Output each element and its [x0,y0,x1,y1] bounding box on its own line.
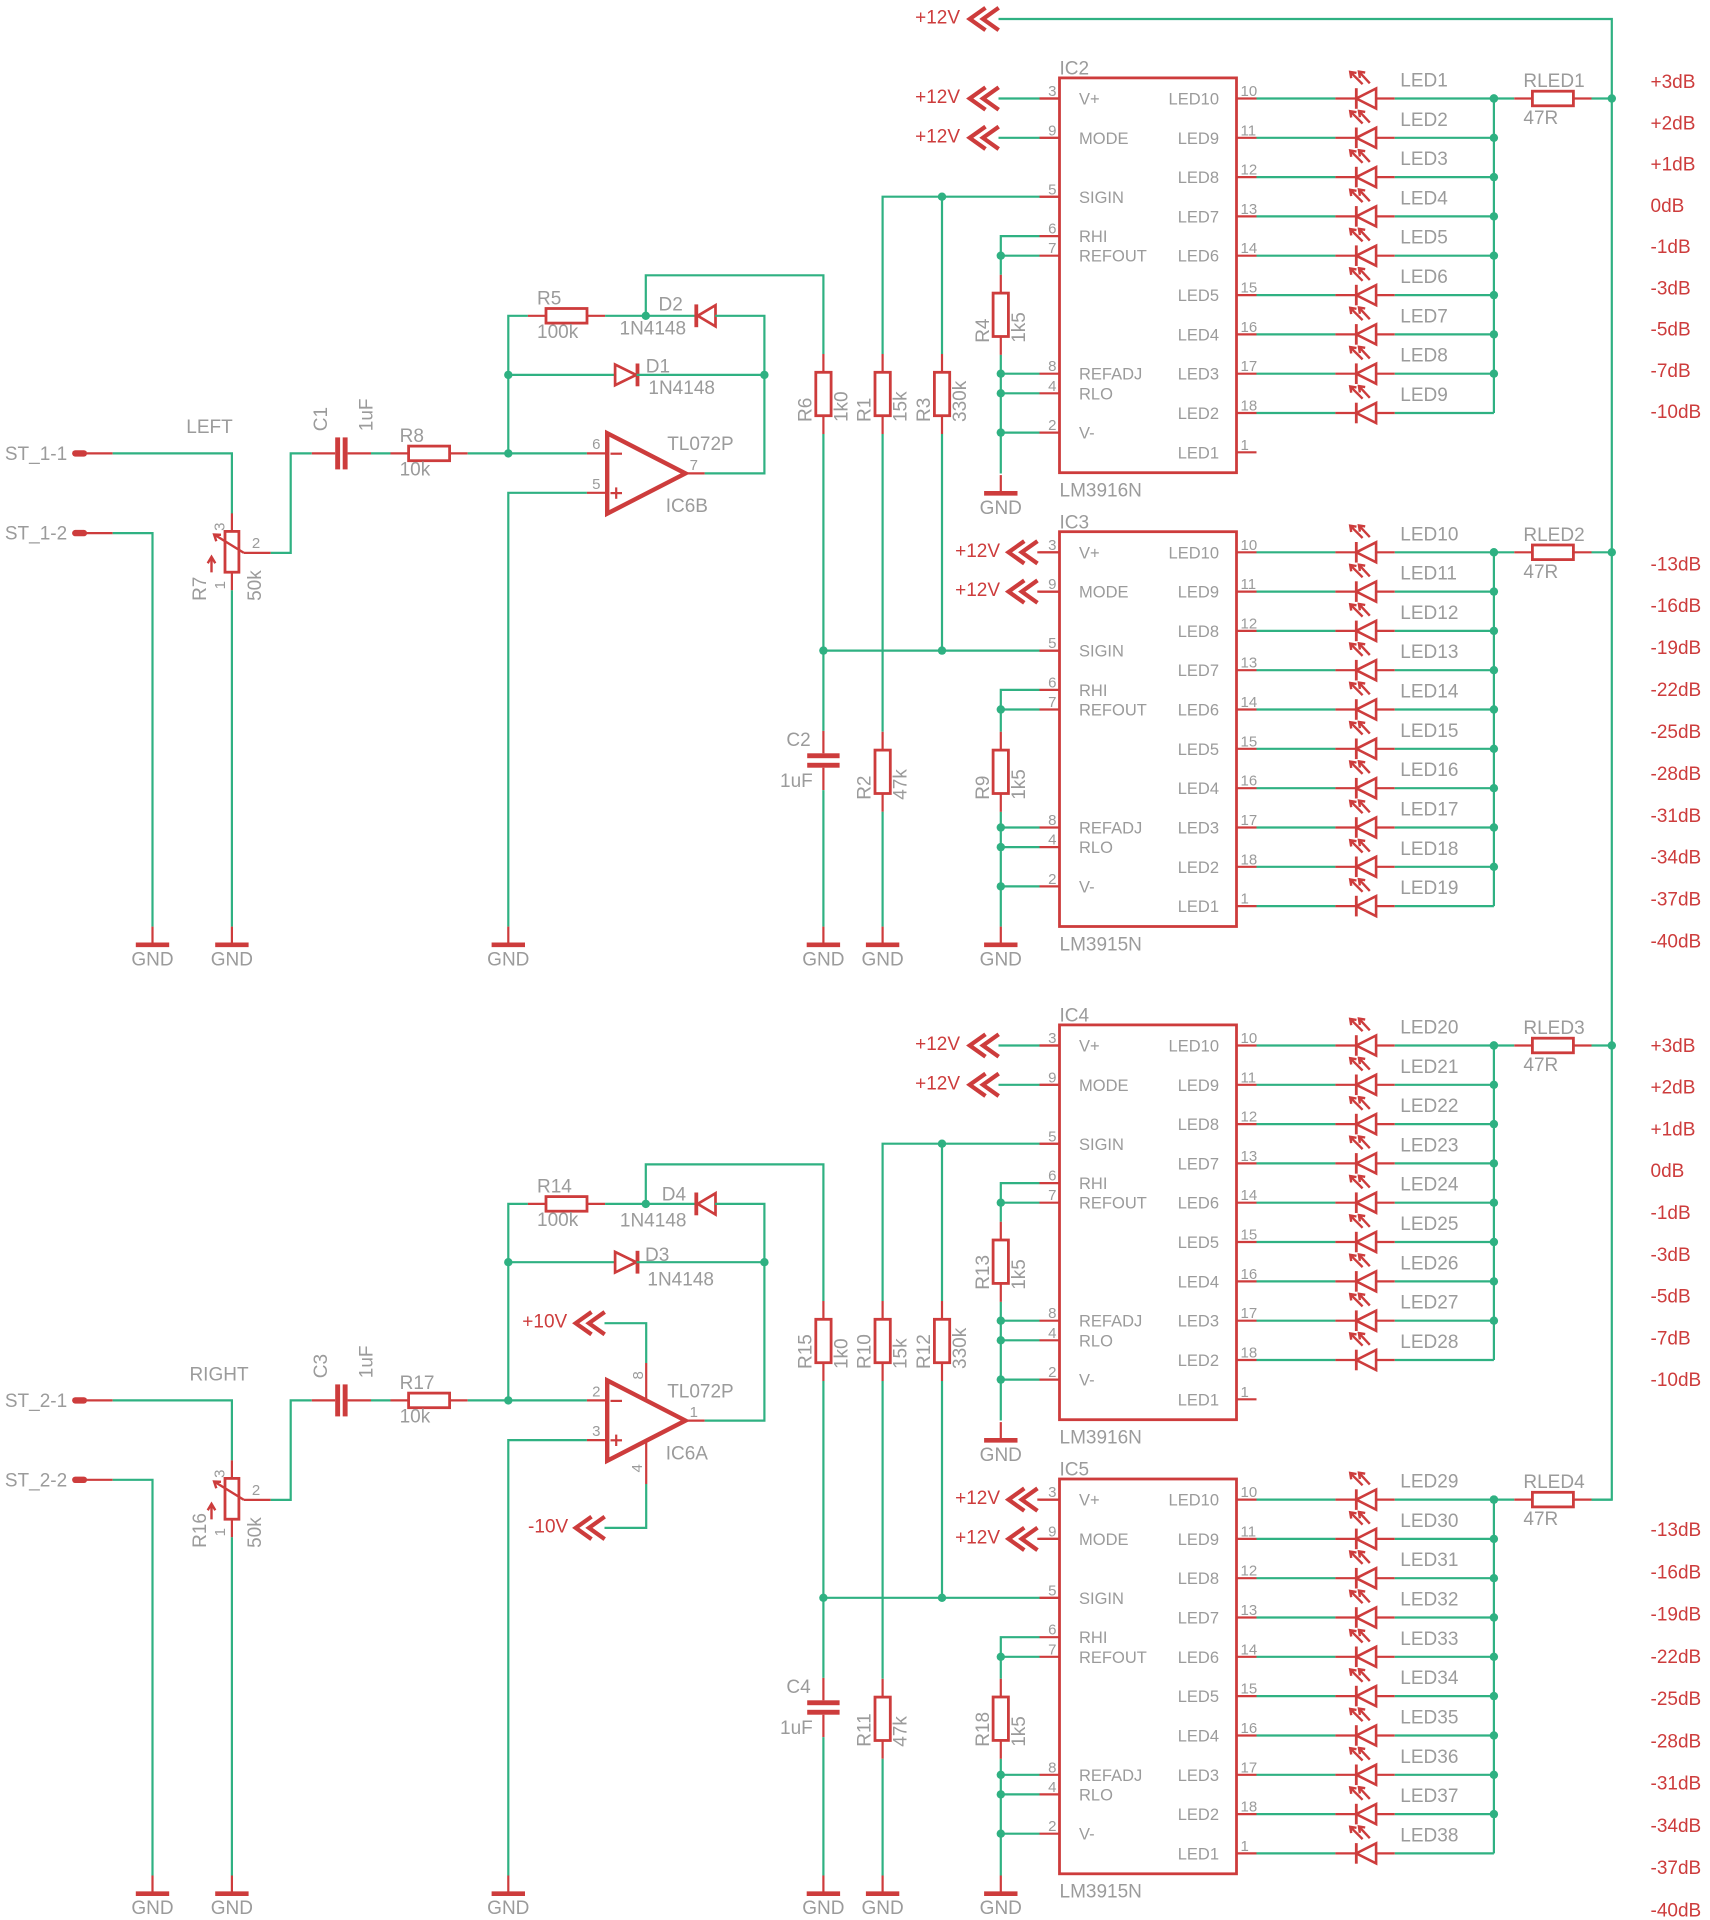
svg-text:R8: R8 [400,426,424,447]
wire +12V to IC4 pin3 [999,1044,1040,1046]
LED LED38 [1335,1825,1458,1863]
svg-text:LED10: LED10 [1169,91,1219,109]
wire LED30 cathode [1257,1538,1336,1540]
wire LED5 cathode [1257,255,1336,257]
junction V- [997,1830,1005,1838]
svg-text:LED1: LED1 [1178,1845,1219,1863]
svg-text:REFADJ: REFADJ [1079,820,1142,838]
svg-text:1uF: 1uF [780,771,813,792]
LED LED30 [1335,1511,1458,1549]
svg-text:6: 6 [1048,1168,1056,1185]
connector pad ST_2-2 [5,1470,87,1491]
capacitor C2 1uF [780,730,840,792]
wire LED2 anode [1395,137,1494,139]
wire R2 to GND [881,812,883,927]
svg-text:17: 17 [1241,1305,1258,1322]
junction RLED1 left [1490,94,1498,102]
wire LED14 cathode [1257,708,1336,710]
svg-text:R13: R13 [973,1255,994,1290]
svg-text:LED12: LED12 [1400,603,1458,624]
wire SIGIN4 [823,1597,1039,1599]
wire LED14 anode [1395,708,1494,710]
svg-text:-1dB: -1dB [1651,1203,1691,1224]
svg-text:0dB: 0dB [1651,1161,1685,1182]
svg-text:R16: R16 [190,1513,211,1548]
svg-text:-19dB: -19dB [1651,638,1702,659]
LED LED23 [1335,1135,1458,1173]
junction anode bus [1490,370,1498,378]
svg-text:LED6: LED6 [1178,1195,1219,1213]
wire pot R7 wiper to C1 [271,453,312,553]
svg-text:IC4: IC4 [1060,1006,1090,1027]
svg-text:8: 8 [1048,358,1056,375]
wire LED21 anode [1395,1084,1494,1086]
LED LED13 [1335,642,1458,680]
svg-text:LED35: LED35 [1400,1708,1458,1729]
wire LED7 cathode [1257,333,1336,335]
svg-text:LEFT: LEFT [186,417,233,438]
wire RLO [1001,1339,1040,1341]
svg-text:12: 12 [1241,162,1258,179]
wire LED26 cathode [1257,1280,1336,1282]
wire LED29 cathode [1257,1498,1336,1500]
svg-text:SIGIN: SIGIN [1079,1590,1124,1608]
svg-text:LED1: LED1 [1400,71,1448,92]
svg-text:IC2: IC2 [1060,59,1090,80]
wire LED20 cathode [1257,1044,1336,1046]
svg-text:R10: R10 [855,1334,876,1369]
wire LED19 cathode [1257,905,1336,907]
svg-text:-1dB: -1dB [1651,237,1691,258]
wire R5 to D2 node [605,315,646,317]
svg-text:LED8: LED8 [1178,623,1219,641]
wire op-amp pin5 to GND [508,493,587,927]
LED LED16 [1335,760,1458,798]
wire +12V to IC4 pin9 [999,1084,1040,1086]
wire C4 to GND [822,1737,824,1875]
svg-text:V-: V- [1079,1372,1095,1390]
wire op-amp pin3 to GND [508,1440,587,1875]
IC2 pin3 stub [1040,97,1060,99]
svg-text:LED33: LED33 [1400,1629,1458,1650]
junction REFADJ [997,370,1005,378]
wire R bottom to REFADJ/RLO/V- [1000,355,1002,433]
svg-text:GND: GND [861,1898,903,1919]
svg-text:RIGHT: RIGHT [189,1364,249,1385]
svg-text:10: 10 [1241,1484,1258,1501]
svg-text:330k: 330k [950,1327,971,1369]
wire REFOUT [1001,255,1040,257]
wire to R top [1000,1203,1002,1222]
junction D3 right [760,1258,768,1266]
svg-text:11: 11 [1241,576,1257,593]
wire LED37 cathode [1257,1813,1336,1815]
svg-text:LED3: LED3 [1178,1767,1219,1785]
wire LED3 cathode [1257,176,1336,178]
wire IC4 V- to GND [1000,1380,1002,1421]
wire LED30 anode [1395,1538,1494,1540]
wire LED36 anode [1395,1774,1494,1776]
ground [802,927,844,971]
svg-text:RLO: RLO [1079,385,1113,403]
svg-text:LED5: LED5 [1178,1234,1219,1252]
svg-text:7: 7 [1048,240,1056,257]
svg-text:GND: GND [211,1898,253,1919]
svg-text:2: 2 [592,1383,600,1400]
svg-text:10k: 10k [400,1406,431,1427]
junction anode bus [1490,1238,1498,1246]
svg-text:V+: V+ [1079,1492,1100,1510]
junction REFADJ [997,1317,1005,1325]
svg-text:100k: 100k [537,322,579,343]
svg-text:R1: R1 [855,398,876,422]
junction R5/D2 [642,312,650,320]
svg-text:LED34: LED34 [1400,1668,1459,1689]
svg-text:LED23: LED23 [1400,1135,1458,1156]
junction anode bus [1490,134,1498,142]
junction anode bus [1490,548,1498,556]
LED LED27 [1335,1293,1458,1331]
wire LED9 cathode [1257,412,1336,414]
svg-text:LED4: LED4 [1178,780,1219,798]
svg-text:LED10: LED10 [1169,1038,1219,1056]
svg-text:-31dB: -31dB [1651,806,1702,827]
svg-text:LED7: LED7 [1178,1155,1219,1173]
LED LED10 [1335,524,1458,562]
ground [980,927,1022,971]
svg-text:RLED3: RLED3 [1523,1018,1584,1039]
svg-text:18: 18 [1241,851,1258,868]
resistor RLED1 47R [1514,71,1591,129]
LED LED26 [1335,1253,1458,1291]
svg-text:-16dB: -16dB [1651,596,1702,617]
svg-text:LED28: LED28 [1400,1332,1458,1353]
svg-text:LED8: LED8 [1400,346,1448,367]
junction anode bus [1490,823,1498,831]
svg-text:-13dB: -13dB [1651,1520,1702,1541]
svg-text:+12V: +12V [955,1488,1000,1509]
svg-text:1: 1 [1241,891,1249,908]
svg-text:GND: GND [131,949,173,970]
ground [802,1876,844,1920]
svg-text:6: 6 [1048,221,1056,238]
junction anode bus [1490,1653,1498,1661]
svg-text:14: 14 [1241,240,1258,257]
wire ST_2-1 stub [87,1399,113,1401]
svg-text:LED29: LED29 [1400,1472,1458,1493]
svg-text:GND: GND [802,949,844,970]
svg-text:LED7: LED7 [1178,662,1219,680]
wire R14 to D4 node [605,1203,646,1205]
potentiometer R16 50k [190,1460,271,1548]
svg-text:11: 11 [1241,122,1257,139]
wire LED11 cathode [1257,590,1336,592]
svg-text:LED4: LED4 [1178,1273,1219,1291]
LED LED25 [1335,1214,1458,1252]
wire LED35 cathode [1257,1734,1336,1736]
svg-text:R18: R18 [973,1712,994,1747]
wire RHI [1001,690,1040,710]
junction RLED3 left [1490,1041,1498,1049]
LED LED36 [1335,1747,1458,1785]
wire D1 to right node [637,374,765,376]
svg-text:REFADJ: REFADJ [1079,366,1142,384]
svg-text:18: 18 [1241,1345,1258,1362]
wire LED13 cathode [1257,669,1336,671]
wire ST_1-2 stub [87,532,113,534]
op-amp pin5 stub [587,492,607,494]
svg-text:10: 10 [1241,537,1258,554]
LED LED37 [1335,1786,1458,1824]
wire V- [1001,1378,1040,1380]
svg-text:LED10: LED10 [1400,524,1458,545]
wire IC2 V- to GND [1000,433,1002,474]
LED LED4 [1335,188,1448,226]
svg-text:LED18: LED18 [1400,839,1458,860]
junction anode bus [1490,666,1498,674]
LED LED14 [1335,682,1458,720]
resistor R17 10k [391,1373,468,1428]
LED LED18 [1335,839,1458,877]
wire R3 top [941,197,943,354]
supply symbol +10V [522,1312,604,1335]
LED LED6 [1335,267,1447,305]
svg-text:4: 4 [1048,832,1056,849]
svg-text:13: 13 [1241,1602,1258,1619]
svg-text:R15: R15 [795,1334,816,1369]
wire LED anode bus [1493,1500,1495,1854]
svg-text:7: 7 [690,457,698,474]
svg-text:-25dB: -25dB [1651,1689,1702,1710]
wire LED22 anode [1395,1123,1494,1125]
wire LED29 anode [1395,1498,1494,1500]
wire +12V rail [999,19,1612,1500]
svg-text:LED26: LED26 [1400,1253,1458,1274]
svg-text:V+: V+ [1079,544,1100,562]
svg-text:3: 3 [592,1423,600,1440]
svg-text:12: 12 [1241,1109,1258,1126]
svg-text:MODE: MODE [1079,1531,1129,1549]
svg-text:LED9: LED9 [1178,130,1219,148]
svg-text:GND: GND [980,949,1022,970]
svg-text:LED24: LED24 [1400,1175,1459,1196]
wire LED12 anode [1395,630,1494,632]
wire pot R16 wiper to C3 [271,1400,312,1500]
resistor RLED3 47R [1514,1018,1591,1076]
junction anode bus [1490,1692,1498,1700]
junction anode bus [1490,1041,1498,1049]
junction REFADJ [997,1771,1005,1779]
svg-text:4: 4 [1048,1325,1056,1342]
junction anode bus [1490,330,1498,338]
svg-text:MODE: MODE [1079,130,1129,148]
wire to RLED3 [1494,1044,1514,1046]
supply symbol +12V [915,1034,999,1057]
wire LED anode bus [1493,1046,1495,1361]
svg-text:GND: GND [980,498,1022,519]
svg-text:6: 6 [1048,674,1056,691]
wire R6 to SIGIN2 [822,434,824,651]
svg-text:+2dB: +2dB [1651,113,1696,134]
svg-text:+10V: +10V [522,1312,567,1333]
svg-text:6: 6 [592,436,600,453]
svg-text:-7dB: -7dB [1651,1328,1691,1349]
wire REFADJ [1001,826,1040,828]
svg-text:REFADJ: REFADJ [1079,1767,1142,1785]
IC IC5 LM3915N [1040,1460,1258,1903]
LED LED19 [1335,878,1458,916]
svg-text:TL072P: TL072P [667,1381,734,1402]
resistor R2 47k [855,732,912,812]
svg-text:1: 1 [1241,1838,1249,1855]
wire LED22 cathode [1257,1123,1336,1125]
wire LED18 cathode [1257,866,1336,868]
svg-text:V+: V+ [1079,1038,1100,1056]
junction anode bus [1490,1771,1498,1779]
ground [131,1876,173,1920]
svg-text:1: 1 [212,581,229,589]
svg-text:LED10: LED10 [1169,544,1219,562]
junction anode bus [1490,1731,1498,1739]
svg-text:14: 14 [1241,1187,1258,1204]
svg-text:12: 12 [1241,1563,1258,1580]
svg-text:LED25: LED25 [1400,1214,1458,1235]
svg-text:LED9: LED9 [1178,584,1219,602]
ground [211,927,253,971]
wire LED15 cathode [1257,748,1336,750]
svg-text:LED5: LED5 [1178,287,1219,305]
svg-text:15: 15 [1241,1227,1258,1244]
wire LED9 anode [1395,412,1494,414]
wire LED4 anode [1395,215,1494,217]
wire R17 to junction [468,1399,509,1401]
svg-text:16: 16 [1241,319,1258,336]
resistor R12 330k [914,1301,971,1381]
svg-text:GND: GND [211,949,253,970]
svg-text:1uF: 1uF [357,1345,378,1378]
resistor R1 15k [855,354,912,434]
wire R11 to GND [881,1759,883,1876]
wire LED27 cathode [1257,1320,1336,1322]
svg-text:LED3: LED3 [1400,149,1448,170]
svg-text:3: 3 [211,523,228,531]
LED LED5 [1335,228,1447,266]
wire LED23 cathode [1257,1162,1336,1164]
LED LED24 [1335,1175,1458,1213]
LED LED31 [1335,1550,1458,1588]
wire R10 to R11 [881,1381,883,1679]
LED LED8 [1335,346,1447,384]
svg-text:LED1: LED1 [1178,898,1219,916]
wire to RLED4 [1494,1498,1514,1500]
svg-text:-13dB: -13dB [1651,554,1702,575]
wire REFOUT [1001,1656,1040,1658]
op-amp IC6A TL072P [592,1380,734,1464]
svg-text:-19dB: -19dB [1651,1605,1702,1626]
wire RLED2 to rail [1592,551,1612,553]
wire LED34 cathode [1257,1695,1336,1697]
resistor R5 100k [528,288,605,343]
svg-text:RLO: RLO [1079,839,1113,857]
svg-text:ST_2-1: ST_2-1 [5,1391,67,1412]
supply symbol +12V [915,8,999,31]
junction anode bus [1490,1277,1498,1285]
wire feedback left vertical [508,316,528,454]
resistor R15 1k0 [795,1301,852,1381]
op-amp pin4 stub [645,1441,647,1484]
svg-text:15k: 15k [891,391,912,422]
resistor R8 10k [391,426,468,481]
wire RLO [1001,846,1040,848]
wire to D4 [646,1203,695,1205]
capacitor C4 1uF [780,1677,840,1739]
svg-text:-28dB: -28dB [1651,764,1702,785]
svg-text:-10dB: -10dB [1651,402,1702,423]
junction anode bus [1490,1810,1498,1818]
junction REFADJ [997,823,1005,831]
supply symbol -10V [528,1516,605,1539]
wire REFADJ [1001,1320,1040,1322]
ground [487,1876,529,1920]
wire R12 top [941,1144,943,1301]
wire to RLED2 [1494,551,1514,553]
svg-text:LED4: LED4 [1178,1728,1219,1746]
svg-text:GND: GND [802,1898,844,1919]
wire LED31 anode [1395,1577,1494,1579]
svg-text:1: 1 [212,1528,229,1536]
svg-text:MODE: MODE [1079,1077,1129,1095]
diode D4 1N4148 [620,1185,716,1232]
wire LED1 anode [1395,97,1494,99]
svg-text:47R: 47R [1523,1055,1558,1076]
svg-text:5: 5 [1048,635,1056,652]
svg-text:R7: R7 [190,577,211,601]
ground [980,475,1022,519]
wire to R top [1000,1657,1002,1679]
wire LED3 anode [1395,176,1494,178]
svg-text:LED6: LED6 [1400,267,1448,288]
junction anode bus [1490,745,1498,753]
IC5 pin3 stub [1037,1498,1059,1500]
junction anode bus [1490,1574,1498,1582]
svg-text:TL072P: TL072P [667,434,734,455]
wire R15 to SIGIN4 [822,1381,824,1598]
wire LED anode bus [1493,552,1495,906]
wire C2 top [822,651,824,731]
supply symbol +12V [955,1488,1037,1511]
svg-text:1: 1 [1241,437,1249,454]
wire LED13 anode [1395,669,1494,671]
svg-text:ST_1-1: ST_1-1 [5,444,67,465]
svg-text:-16dB: -16dB [1651,1562,1702,1583]
junction anode bus [1490,1081,1498,1089]
wire to op-amp pin2 [508,1399,587,1401]
svg-text:LED15: LED15 [1400,721,1458,742]
svg-text:+12V: +12V [955,580,1000,601]
wire LED anode bus [1493,99,1495,414]
svg-text:47k: 47k [891,769,912,800]
junction V- [997,1375,1005,1383]
svg-text:47k: 47k [891,1716,912,1747]
LED LED22 [1335,1096,1458,1134]
svg-text:RLO: RLO [1079,1786,1113,1804]
op-amp pin7 stub [685,472,704,474]
wire SIGIN3 [883,1144,1040,1301]
supply symbol +12V [915,1073,999,1096]
svg-text:C4: C4 [786,1677,811,1698]
capacitor C3 1uF [311,1345,378,1416]
IC2 pin5 stub [1040,196,1060,198]
